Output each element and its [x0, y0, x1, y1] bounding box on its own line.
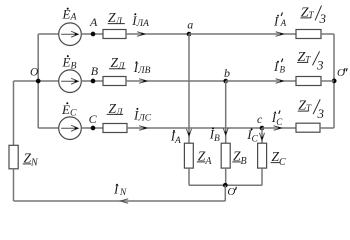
wire A3	[189, 33, 296, 35]
current arrow ILC	[140, 126, 148, 130]
current arrow IA	[187, 129, 192, 136]
wire below ZA	[188, 168, 190, 185]
current arrow ILA	[138, 32, 146, 36]
node c	[257, 112, 264, 130]
svg-text:I: I	[273, 59, 279, 74]
svg-text:3: 3	[319, 11, 327, 26]
resistor ZL phase B	[103, 77, 126, 86]
emf source EB	[59, 70, 82, 93]
label ZT/3 phase C	[298, 99, 325, 121]
svg-text:O: O	[227, 186, 235, 198]
resistor ZL phase A	[103, 30, 126, 39]
resistor ZC	[258, 143, 267, 168]
label ZB	[232, 148, 246, 167]
wire branch c vertical	[261, 128, 263, 143]
svg-text:A: A	[89, 15, 98, 29]
label ZL phase B	[109, 55, 125, 72]
wire C4	[320, 127, 334, 129]
svg-text:c: c	[257, 112, 263, 126]
label I'B	[273, 59, 286, 75]
svg-text:b: b	[224, 66, 230, 80]
wire phase B left	[14, 80, 60, 82]
label ZC	[271, 149, 286, 168]
svg-text:B: B	[280, 65, 286, 75]
label ZA	[197, 148, 213, 167]
svg-text:3: 3	[316, 57, 324, 72]
wire right vertical	[333, 34, 335, 128]
current arrow I'C	[274, 126, 282, 130]
resistor ZL phase C	[103, 124, 127, 133]
svg-text:I: I	[273, 14, 279, 29]
wire B1	[81, 80, 103, 82]
wire neutral return	[14, 200, 226, 202]
wire phase C stub	[38, 127, 59, 129]
emf source EA	[59, 23, 82, 46]
svg-text:O: O	[30, 67, 39, 79]
current arrow ILB	[140, 79, 148, 83]
current arrow I'B	[276, 79, 284, 83]
svg-text:B: B	[91, 64, 99, 78]
label I'A	[273, 13, 287, 29]
resistor ZT/3 phase A	[296, 30, 321, 39]
label IB	[209, 127, 220, 144]
node O''	[332, 67, 347, 83]
wire O' down	[224, 185, 226, 201]
svg-text:O: O	[337, 67, 345, 79]
node C	[89, 112, 98, 130]
wire C2	[127, 127, 262, 129]
wire left vertical lower	[13, 169, 15, 201]
node A	[89, 15, 98, 36]
svg-text:C: C	[89, 112, 98, 126]
label ZN	[23, 150, 39, 168]
svg-text:3: 3	[317, 106, 325, 121]
node b	[223, 66, 230, 83]
label ZL phase C	[107, 101, 123, 118]
svg-text:a: a	[187, 17, 193, 31]
label IA	[170, 129, 181, 146]
label I'C	[271, 110, 284, 127]
label ZT/3 phase B	[297, 50, 324, 72]
svg-text:A: A	[280, 18, 287, 28]
label ILB	[133, 60, 151, 76]
wire below ZC	[261, 168, 263, 185]
wire A4	[321, 33, 334, 35]
resistor ZN	[9, 145, 18, 169]
label EC	[61, 102, 77, 118]
node O'	[223, 183, 236, 198]
label IN	[113, 182, 127, 199]
wire C1	[81, 127, 103, 129]
wire below ZB	[225, 168, 227, 185]
resistor ZA	[184, 143, 193, 168]
wire A1	[81, 33, 103, 35]
current arrow IN	[121, 199, 128, 203]
wire B2	[126, 80, 226, 82]
node O	[30, 67, 41, 84]
node B	[91, 64, 99, 83]
node a	[187, 17, 194, 36]
wire B3	[226, 80, 296, 82]
wire B4	[321, 80, 334, 82]
label ILA	[131, 13, 149, 29]
svg-text:C: C	[276, 117, 283, 127]
wire phase A stub	[38, 33, 59, 35]
emf source EC	[59, 117, 82, 140]
wire branch a vertical	[188, 34, 190, 143]
wire load bottom	[189, 184, 262, 186]
label ZT/3 phase A	[300, 6, 326, 26]
resistor ZB	[221, 143, 230, 168]
wire left vertical upper	[13, 81, 15, 145]
label EB	[62, 55, 77, 72]
label EA	[62, 7, 78, 23]
current arrow IB	[223, 128, 228, 135]
current arrow IC	[260, 133, 265, 140]
resistor ZT/3 phase C	[296, 123, 320, 132]
label ILC	[133, 108, 152, 124]
resistor ZT/3 phase B	[296, 77, 321, 86]
label IC	[246, 127, 258, 144]
wire C3	[262, 127, 296, 129]
wire A2	[126, 33, 189, 35]
label ZL phase A	[108, 10, 125, 27]
current arrow I'A	[276, 32, 284, 36]
wire branch b vertical	[225, 81, 227, 143]
wire generator neutral bus vertical	[37, 34, 39, 128]
